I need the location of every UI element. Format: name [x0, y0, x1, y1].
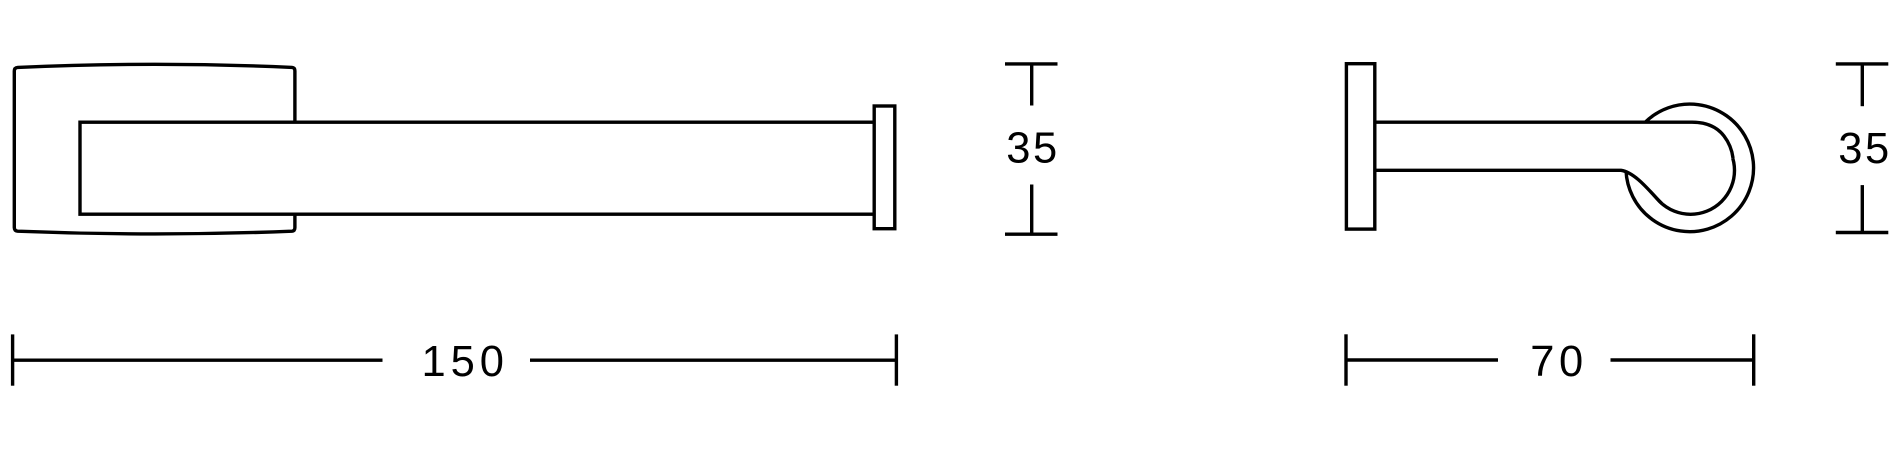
arm bottom edge with fillet (side view) — [1374, 170, 1662, 204]
outer ring arc (side view) — [1626, 104, 1754, 232]
svg-text:150: 150 — [421, 338, 504, 386]
inner ring circle (side view) — [1647, 126, 1735, 214]
dimension 70 (side view) — [1346, 334, 1754, 385]
dimension 35 (front view) — [1005, 64, 1058, 234]
end cap (front view) — [874, 106, 895, 229]
wall plate (front view) — [14, 64, 295, 234]
wall plate (side view) — [1346, 64, 1374, 229]
arm top edge (side view) — [1374, 122, 1733, 158]
arm fill mask (side view) — [1376, 122, 1733, 209]
dimension 150 (front view) — [13, 334, 897, 385]
dimension 35 (side view) — [1836, 64, 1889, 233]
bar (front view) — [80, 122, 884, 214]
